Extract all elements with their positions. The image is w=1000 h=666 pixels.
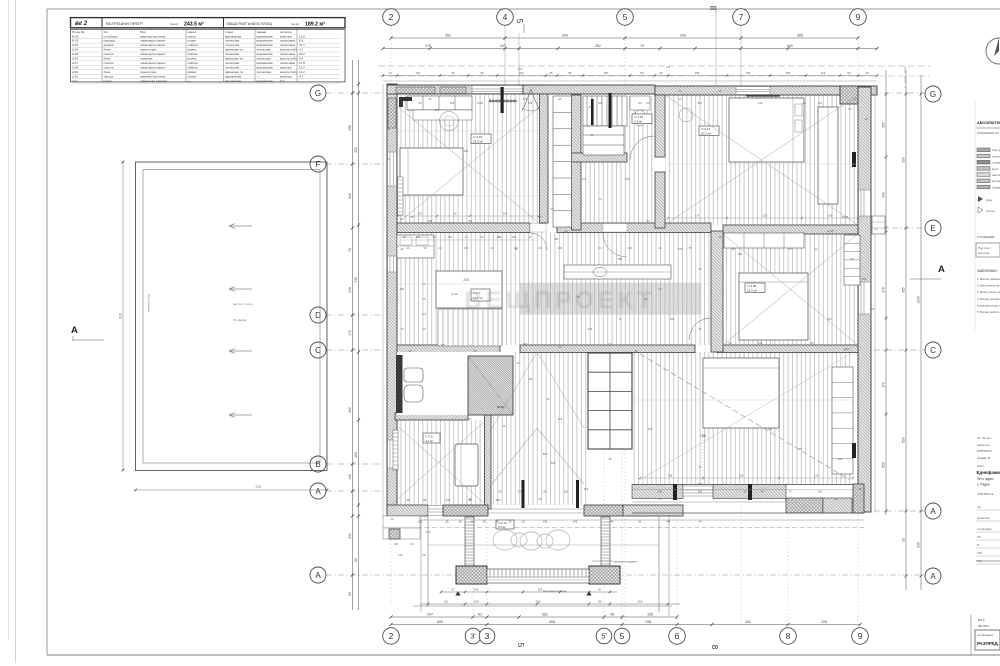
axis bubble left F: [310, 156, 326, 172]
svg-text:363: 363: [838, 457, 843, 461]
stair mid landing shelves: [583, 126, 624, 155]
svg-text:365: 365: [518, 67, 523, 71]
svg-text:5: 5: [516, 643, 525, 648]
bottom-right lower sill lines: [632, 501, 786, 503]
svg-text:латексова: латексова: [257, 70, 271, 74]
svg-text:Под: Под: [140, 30, 146, 34]
terrace arrows: [229, 224, 252, 229]
living door black bars: [673, 484, 677, 500]
svg-text:20.2: 20.2: [299, 52, 305, 56]
svg-text:5. Всички работи съг: 5. Всички работи съг: [977, 310, 1000, 314]
svg-text:118: 118: [768, 427, 773, 431]
svg-text:фаянс: фаянс: [188, 57, 197, 61]
svg-text:5: 5: [515, 19, 524, 24]
svg-text:92: 92: [454, 212, 457, 216]
svg-text:ламиниран паркет: ламиниран паркет: [140, 39, 166, 43]
roof overhang dashed line right: [904, 66, 906, 88]
shower dense square: [468, 356, 513, 415]
svg-text:196: 196: [695, 71, 700, 75]
svg-text:343: 343: [588, 327, 593, 331]
svg-text:метална козирка: метална козирка: [543, 589, 567, 593]
svg-text:тераса: тераса: [104, 74, 114, 78]
svg-text:5: 5: [620, 631, 625, 641]
svg-text:122: 122: [422, 312, 427, 316]
window gap top wall 1: [472, 86, 523, 94]
svg-text:118: 118: [698, 490, 703, 494]
closet column stairwell: [553, 96, 572, 227]
svg-text:проектант: проектант: [977, 516, 991, 520]
svg-text:мазилка: мазилка: [280, 65, 292, 69]
sheet margin faint line 1: [8, 0, 10, 640]
svg-text:баня: баня: [104, 57, 111, 61]
svg-text:ОТУШЕНИЕ:: ОТУШЕНИЕ:: [977, 235, 995, 239]
svg-text:15.3 м²: 15.3 м²: [473, 140, 483, 144]
room label bath2: [423, 433, 440, 443]
svg-text:810: 810: [119, 313, 123, 319]
svg-text:стоманобето: стоманобето: [992, 161, 1000, 165]
porch label parapet: [592, 560, 613, 562]
svg-text:влагоустойч.: влагоустойч.: [280, 57, 298, 61]
svg-text:28: 28: [483, 520, 486, 524]
axis bubble left A: [310, 567, 326, 583]
svg-text:63: 63: [865, 71, 869, 75]
terrace inner rect: [143, 170, 320, 464]
svg-text:240: 240: [882, 192, 886, 198]
svg-text:---: ---: [257, 74, 260, 78]
svg-text:латексова: латексова: [225, 61, 239, 65]
svg-text:8: 8: [710, 645, 719, 650]
porch outline right outer: [668, 516, 670, 617]
svg-text:302: 302: [464, 149, 469, 153]
axis bubble bottom 5p: [596, 628, 612, 644]
radiator bottom-left room: [393, 430, 398, 470]
svg-text:66: 66: [407, 498, 410, 502]
svg-text:86: 86: [568, 71, 572, 75]
svg-text:Под текст: Под текст: [978, 246, 991, 250]
svg-text:28: 28: [446, 520, 449, 524]
room schedule table header: [71, 18, 346, 28]
door swing middle-right: [689, 318, 711, 340]
eaves line left: [382, 84, 384, 516]
room label kitchen: [471, 289, 490, 301]
radiator top-right: [746, 95, 780, 97]
svg-text:10.0: 10.0: [299, 65, 305, 69]
wardrobe rows top-left: [407, 96, 472, 110]
svg-text:120: 120: [564, 490, 569, 494]
axis bubble top 9: [850, 9, 867, 26]
svg-text:30: 30: [744, 490, 747, 494]
svg-text:226: 226: [518, 490, 523, 494]
svg-text:45: 45: [659, 71, 663, 75]
svg-text:фаянсови пл.: фаянсови пл.: [225, 70, 244, 74]
svg-text:149: 149: [474, 588, 479, 592]
svg-text:ламиниран паркет: ламиниран паркет: [140, 52, 166, 56]
svg-text:влагоустойч.: влагоустойч.: [280, 48, 298, 52]
svg-text:160: 160: [637, 600, 642, 604]
svg-text:352: 352: [445, 34, 451, 38]
left outside footing: [389, 529, 400, 539]
top dimension chain 3 small: [383, 75, 877, 77]
svg-text:143: 143: [758, 101, 763, 105]
svg-text:камсилтис: камсилтис: [977, 444, 990, 447]
porch left rail ladder: [465, 517, 474, 566]
floor hatch middle band living: [397, 232, 711, 345]
svg-text:675: 675: [441, 343, 446, 347]
svg-text:650: 650: [902, 437, 906, 443]
svg-text:6.2: 6.2: [280, 79, 285, 83]
svg-text:УВВ: УВВ: [700, 434, 706, 438]
axis bubble bottom 5: [614, 628, 630, 644]
svg-text:150: 150: [416, 236, 421, 239]
svg-text:86: 86: [544, 490, 547, 494]
svg-text:варовикова: варовикова: [257, 34, 273, 38]
svg-text:385: 385: [618, 257, 623, 261]
svg-text:60: 60: [598, 600, 602, 604]
svg-text:949: 949: [698, 482, 703, 486]
svg-text:повърхности да с: повърхности да с: [977, 303, 1000, 307]
svg-text:нов блок: нов блок: [978, 251, 990, 255]
svg-text:8.4: 8.4: [299, 57, 304, 61]
svg-text:130: 130: [850, 257, 855, 261]
svg-text:варовикова: варовикова: [225, 74, 241, 78]
svg-text:A: A: [71, 325, 78, 336]
svg-text:2-11: 2-11: [72, 79, 78, 83]
svg-text:ламиниран паркет: ламиниран паркет: [140, 65, 166, 69]
svg-text:св.площ: св.площ: [280, 30, 292, 34]
shelf stack right: [844, 235, 860, 285]
svg-text:83: 83: [639, 101, 642, 105]
outer wall top (right part): [655, 86, 877, 95]
svg-text:198: 198: [645, 620, 651, 624]
sheet margin faint line 2: [15, 0, 17, 663]
svg-text:Заб: Заб: [977, 551, 982, 555]
svg-text:пд: пд: [875, 228, 878, 231]
bottom-right room lower wall band B: [713, 485, 786, 499]
svg-text:696: 696: [523, 342, 528, 346]
svg-text:155: 155: [625, 177, 630, 181]
svg-text:240: 240: [394, 542, 399, 546]
door leaf black bar bedroomA: [501, 87, 504, 113]
svg-text:263: 263: [496, 498, 501, 502]
svg-text:650: 650: [882, 462, 886, 468]
vertical axis construction lines: [390, 26, 392, 606]
floor hatch top-right bedroom: [665, 94, 858, 225]
svg-text:влагоустойч.: влагоустойч.: [280, 70, 298, 74]
svg-text:4.2: 4.2: [299, 48, 304, 52]
svg-text:лайсна: лайсна: [188, 43, 198, 47]
svg-text:887: 887: [698, 101, 703, 105]
svg-text:обшивка лам: обшивка лам: [992, 185, 1000, 189]
axis bubble bottom 3p: [465, 628, 481, 644]
interior dim row room A bottom: [398, 215, 539, 217]
outer wall right: [858, 87, 871, 512]
svg-text:варовикова: варовикова: [257, 39, 273, 43]
radiator room A left wall: [398, 177, 404, 215]
porch outline left: [427, 516, 429, 606]
svg-text:КУЛТУРА 6: КУЛТУРА 6: [977, 449, 992, 453]
svg-text:стени: стени: [225, 30, 233, 34]
bottom-right lower wall crosshatch piece 1: [786, 498, 823, 513]
diagonals top-left bedroom: [398, 107, 539, 223]
faint joint lines living: [397, 283, 711, 285]
porch right footing: [589, 566, 620, 584]
svg-text:80: 80: [354, 558, 358, 562]
dashed diagonal bottom-right living: [640, 354, 850, 480]
bed top-right bedroom: [729, 98, 804, 162]
left dimension chain inner: [358, 60, 360, 610]
door leaf black bar bedroomB: [609, 93, 612, 128]
svg-text:243.5 м²: 243.5 м²: [184, 22, 204, 28]
radiator under top window 1: [489, 100, 517, 102]
svg-text:8: 8: [708, 6, 717, 11]
svg-text:322: 322: [354, 147, 358, 153]
svg-text:обект:: обект:: [977, 464, 985, 468]
svg-text:6: 6: [675, 631, 680, 641]
svg-text:46: 46: [611, 520, 614, 524]
svg-text:ВЕЩПРОЕКТ: ВЕЩПРОЕКТ: [464, 287, 655, 314]
svg-text:8: 8: [786, 631, 791, 641]
svg-text:08.2014: 08.2014: [978, 624, 989, 628]
svg-text:90: 90: [419, 101, 422, 105]
legend note box: [976, 243, 1000, 257]
bath sink: [404, 368, 423, 382]
interior wall horizontal upper: [397, 223, 530, 233]
svg-text:13.2: 13.2: [299, 70, 305, 74]
interior wall horizontal upper right: [723, 225, 858, 234]
svg-text:140: 140: [348, 474, 352, 480]
svg-text:метален парапет: метален парапет: [614, 560, 638, 564]
svg-text:83: 83: [640, 71, 644, 75]
svg-text:об!: об!: [718, 89, 722, 93]
svg-text:20: 20: [902, 538, 906, 542]
svg-text:250: 250: [658, 490, 663, 494]
room label bedroomB: [699, 126, 719, 136]
svg-text:5': 5': [601, 632, 607, 641]
svg-text:варовикова: варовикова: [225, 79, 241, 83]
svg-text:спалня: спалня: [104, 65, 114, 69]
svg-text:303: 303: [870, 307, 875, 311]
svg-text:(за.м): (за.м): [170, 22, 178, 26]
bath dark strip: [396, 355, 403, 413]
svg-text:1.90: 1.90: [425, 530, 431, 534]
svg-text:97: 97: [598, 588, 602, 592]
svg-text:лайсна: лайсна: [188, 61, 198, 65]
svg-text:323: 323: [538, 588, 543, 592]
svg-text:варовикова: варовикова: [257, 61, 273, 65]
bottom-right lower wall hatch piece 2: [823, 498, 852, 513]
svg-text:25.05: 25.05: [842, 215, 849, 219]
svg-text:фаянс: фаянс: [188, 70, 197, 74]
axis bubble left G: [310, 85, 326, 101]
porch dim chain y592: [441, 591, 617, 593]
bottom wall hatch segment C: [623, 505, 683, 516]
bottom-right lower wall window gap: [683, 486, 713, 496]
axis bubble right A: [925, 568, 941, 584]
svg-text:136: 136: [528, 377, 533, 381]
svg-text:2-07: 2-07: [72, 61, 78, 65]
svg-text:Б-02: Б-02: [72, 39, 79, 43]
door swing stair hall mid: [603, 233, 627, 257]
svg-text:189.2 м²: 189.2 м²: [305, 22, 325, 28]
svg-text:848: 848: [758, 341, 763, 345]
svg-text:G: G: [315, 89, 321, 98]
bottom wall window segment 1: [428, 506, 443, 516]
svg-text:120: 120: [628, 246, 633, 250]
svg-text:186: 186: [598, 101, 603, 105]
svg-text:228: 228: [648, 427, 653, 431]
svg-text:варовикова: варовикова: [257, 65, 273, 69]
terrace vertical dim: [122, 162, 124, 470]
svg-text:121: 121: [582, 177, 587, 181]
svg-text:353: 353: [418, 212, 423, 216]
porch outline left outer: [420, 518, 422, 612]
svg-text:⊡ 3.17: ⊡ 3.17: [701, 127, 711, 131]
bottom dimension chain 1: [391, 616, 677, 618]
eaves line top: [383, 80, 877, 82]
svg-text:вг 2: вг 2: [75, 20, 88, 27]
svg-text:143: 143: [746, 71, 751, 75]
axis bubble left D: [310, 307, 326, 323]
axis bubble right C: [925, 342, 941, 358]
top dimension chain 2: [383, 48, 877, 50]
axis bubble left A: [310, 483, 326, 499]
bottom-right room lower wall band A: [632, 485, 683, 499]
svg-text:96: 96: [480, 71, 484, 75]
svg-text:циментова замазка: циментова замазка: [140, 79, 167, 83]
svg-text:3': 3': [470, 632, 476, 641]
svg-text:зелена площ: зелена площ: [147, 293, 151, 312]
svg-text:60: 60: [847, 71, 851, 75]
floor hatch bottom-right living: [632, 352, 853, 484]
interior wall vertical corridor-bedroomB: [655, 95, 665, 157]
svg-text:ОБЩА РАЗГЪНАТА ПЛОЩ: ОБЩА РАЗГЪНАТА ПЛОЩ: [226, 22, 272, 26]
interior wall vertical middle-right: [711, 231, 723, 352]
svg-text:настил. плочи: настил. плочи: [233, 302, 253, 306]
axis bubble right A: [925, 503, 941, 519]
interior wall vertical bath-hall: [485, 415, 492, 509]
svg-text:40/4: 40/4: [843, 347, 849, 351]
svg-text:варовикова: варовикова: [257, 52, 273, 56]
svg-text:269: 269: [435, 108, 440, 112]
axis bubble top 7: [733, 9, 750, 26]
svg-text:753: 753: [468, 219, 473, 223]
room label bath-top: [632, 114, 652, 124]
svg-text:латексова: латексова: [257, 48, 271, 52]
svg-text:4.2 м²: 4.2 м²: [425, 439, 433, 443]
svg-text:630: 630: [917, 542, 921, 548]
svg-text:РЧ масив: РЧ масив: [233, 318, 247, 322]
svg-text:ламиниран паркет: ламиниран паркет: [140, 61, 166, 65]
svg-text:F: F: [316, 160, 321, 169]
svg-text:12.5: 12.5: [299, 34, 305, 38]
svg-text:157: 157: [604, 71, 609, 75]
svg-text:ламиниран паркет: ламиниран паркет: [140, 43, 166, 47]
svg-text:75: 75: [789, 490, 792, 494]
terrace bottom dim: [136, 489, 328, 491]
svg-text:34: 34: [699, 520, 702, 524]
svg-text:лайсна: лайсна: [188, 65, 198, 69]
svg-text:101: 101: [416, 71, 421, 75]
svg-text:452: 452: [348, 407, 352, 413]
svg-text:латексова: латексова: [225, 43, 239, 47]
bottom dimension chain 2: [391, 624, 860, 626]
title block drawing name box: [975, 630, 1000, 650]
diagonals middle-right bedroom: [723, 234, 858, 345]
sheet border bottom: [47, 654, 1000, 656]
svg-text:24.26: 24.26: [827, 229, 834, 233]
svg-text:Об. No: мот.: Об. No: мот.: [977, 436, 992, 440]
left outside steps: [383, 516, 420, 528]
svg-text:⊡ 3.05: ⊡ 3.05: [747, 284, 757, 288]
svg-text:226: 226: [821, 620, 827, 624]
svg-text:1009: 1009: [477, 101, 483, 105]
svg-text:208: 208: [503, 212, 508, 216]
bed top-left bedroom: [400, 148, 463, 195]
axis bubble bottom 3: [479, 628, 495, 644]
svg-text:748: 748: [354, 277, 358, 283]
stair black door bar: [591, 99, 594, 125]
svg-text:РАЗПРЕД.: РАЗПРЕД.: [977, 641, 999, 646]
title block vertical line: [970, 615, 972, 655]
window grid wardrobe hall: [588, 353, 632, 449]
svg-text:120: 120: [834, 497, 839, 501]
svg-text:настилка гре: настилка гре: [992, 173, 1000, 177]
svg-text:1345: 1345: [917, 296, 921, 304]
corner column top-right crosshatch: [840, 86, 864, 104]
right dimension chain 3: [920, 75, 922, 590]
roof overhang dashed line top: [378, 65, 930, 67]
floor hatch bottom-left room: [397, 420, 485, 505]
svg-text:латексова: латексова: [225, 52, 239, 56]
svg-text:ПИ с адрес: ПИ с адрес: [977, 477, 994, 481]
svg-text:37.1: 37.1: [299, 43, 305, 47]
svg-text:5.3 м²: 5.3 м²: [634, 120, 642, 124]
floor hatch stair corridor top: [583, 96, 655, 223]
svg-text:шпакловка: шпакловка: [280, 52, 295, 56]
svg-text:Б-01: Б-01: [72, 34, 79, 38]
svg-text:150: 150: [448, 236, 453, 239]
terrace outer rect: [136, 162, 328, 471]
svg-text:A: A: [938, 264, 945, 275]
porch left footing: [456, 566, 487, 584]
svg-text:595: 595: [902, 157, 906, 163]
ceiling light circle top-right: [679, 108, 693, 122]
corridor wc fixtures: [630, 96, 650, 110]
svg-text:управит Б: управит Б: [977, 456, 990, 460]
svg-text:70: 70: [640, 44, 644, 48]
svg-text:(за.м): (за.м): [291, 22, 299, 26]
svg-text:първи: първи: [188, 39, 197, 43]
svg-text:2: 2: [389, 12, 394, 22]
svg-text:вътр. мазилк: вътр. мазилк: [992, 167, 1000, 171]
outer wall bottom band: [387, 505, 428, 516]
svg-text:шпакловка: шпакловка: [280, 43, 295, 47]
stair treads upper flight: [583, 96, 627, 126]
closet row middle-right: [724, 233, 804, 248]
svg-text:2-03: 2-03: [72, 43, 78, 47]
legend swatch rows: [977, 148, 990, 152]
kitchen counter along wall: [564, 265, 671, 279]
porch level marker triangles: [455, 591, 460, 596]
interior wall horizontal lower: [397, 345, 500, 353]
axis bubble bottom 8: [780, 628, 797, 645]
bottom-right corner column: [853, 484, 864, 513]
svg-text:186: 186: [523, 97, 528, 101]
bed middle-right: [739, 273, 808, 340]
svg-text:3. Върху текста на в: 3. Върху текста на в: [977, 290, 1000, 294]
porch bush scribbles: [493, 530, 517, 550]
axis bubble bottom 2: [383, 628, 400, 645]
